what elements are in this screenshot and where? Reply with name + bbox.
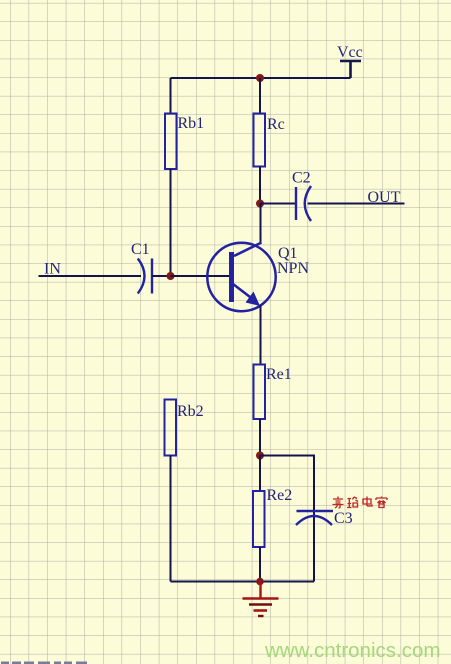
svg-text:C3: C3: [334, 510, 353, 527]
wire Rb1 top lead: [170, 78, 172, 113]
resistor Re1: [254, 365, 292, 420]
wire emitter to Re1: [260, 305, 262, 365]
clipped caption bottom-left: [1, 662, 87, 664]
wire base lead: [171, 275, 230, 277]
svg-text:Rb1: Rb1: [178, 115, 205, 132]
node junction B (base / Rb1 / Rb2): [167, 272, 175, 280]
wire Re2 bottom to ground rail: [259, 547, 261, 582]
value label bypass capacitor 旁路电容 (red): [333, 497, 388, 509]
wire IN lead: [39, 275, 142, 277]
wire top rail: [171, 77, 351, 79]
power Vcc: [337, 44, 363, 78]
wire Rc top lead: [259, 78, 261, 113]
capacitor C2: [292, 170, 311, 222]
ground: [243, 582, 279, 617]
node junction E (Re1 / Re2 / C3 branch): [256, 452, 264, 460]
node junction top (Rc column to rail): [256, 74, 264, 82]
wire Rb2 bottom to ground rail: [170, 456, 172, 582]
resistor Rc: [254, 114, 285, 167]
wire collector node to C2: [260, 203, 296, 205]
node junction collector / C2 tap: [256, 200, 264, 208]
resistor Re2: [253, 487, 292, 547]
svg-text:C2: C2: [292, 170, 311, 187]
wire node E to C3 branch: [260, 456, 314, 512]
svg-text:IN: IN: [44, 261, 61, 278]
capacitor C3: [296, 510, 353, 582]
wire C2 to OUT: [308, 203, 405, 205]
resistor Rb1: [165, 114, 204, 170]
wire Rc bottom to collector node: [259, 167, 261, 204]
transistor Q1: [207, 243, 309, 312]
wire Re1 bottom to node E: [259, 419, 261, 456]
svg-text:Rb2: Rb2: [177, 403, 204, 420]
svg-text:C1: C1: [131, 241, 150, 258]
svg-text:OUT: OUT: [368, 189, 401, 206]
wire C1 to node B: [152, 275, 171, 277]
wire Rb1 bottom to node B: [170, 169, 172, 276]
svg-text:Vcc: Vcc: [337, 44, 363, 61]
svg-text:Re2: Re2: [267, 487, 293, 504]
wire collector node to transistor: [260, 204, 262, 244]
resistor Rb2: [165, 400, 204, 456]
wire ground rail: [171, 581, 315, 583]
wire node E to Re2: [259, 456, 261, 492]
svg-text:Re1: Re1: [266, 366, 292, 383]
capacitor C1: [131, 241, 152, 294]
svg-text:www.cntronics.com: www.cntronics.com: [264, 639, 440, 662]
svg-text:NPN: NPN: [277, 260, 309, 277]
node junction ground: [256, 578, 264, 586]
svg-text:Rc: Rc: [267, 116, 285, 133]
